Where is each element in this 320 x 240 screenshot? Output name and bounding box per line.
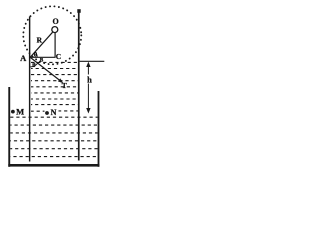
svg-text:T: T — [62, 81, 67, 90]
inner vessel right wall top tick — [77, 9, 80, 13]
string AT with tension arrow — [30, 57, 61, 81]
dotted circular path — [23, 6, 81, 64]
inner water surface dashed row — [31, 61, 78, 63]
vertical line OC — [54, 33, 56, 58]
svg-text:N: N — [51, 108, 57, 117]
outer tank right wall — [98, 91, 100, 167]
h measurement arrow upper shaft — [87, 64, 89, 75]
h measurement arrow lower shaft — [87, 84, 89, 112]
arrowhead of T — [58, 78, 64, 83]
water level reference line (right) — [80, 60, 105, 62]
svg-text:θ: θ — [32, 62, 36, 69]
pulley circle at O — [52, 27, 58, 33]
full width water rows below outer surface — [10, 117, 97, 156]
outer tank left wall — [8, 87, 10, 167]
svg-text:C: C — [56, 52, 61, 61]
point M marker — [11, 110, 15, 114]
upper angle arc at A — [35, 52, 37, 57]
point N marker — [45, 111, 49, 115]
background — [0, 0, 107, 179]
svg-text:h: h — [87, 74, 92, 84]
inner water texture rows — [31, 69, 78, 112]
svg-text:A: A — [20, 53, 27, 63]
horizontal line AC — [30, 56, 56, 58]
svg-text:O: O — [52, 17, 58, 26]
h arrow down head — [86, 108, 90, 114]
hypotenuse AO (radius R) — [30, 32, 52, 57]
svg-text:M: M — [16, 107, 24, 117]
svg-text:θ: θ — [34, 51, 38, 58]
h arrow up head — [86, 62, 90, 67]
outer tank bottom — [8, 164, 99, 167]
inner vessel right wall — [78, 10, 80, 161]
inner vessel left wall — [29, 17, 30, 162]
svg-text:R: R — [37, 35, 43, 44]
lower angle arc at A (between AT and wall) — [30, 63, 38, 67]
